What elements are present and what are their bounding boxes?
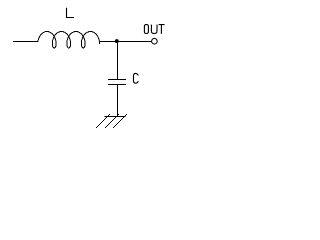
terminal OUT circle	[152, 38, 158, 44]
ground hatch middle	[105, 114, 119, 128]
wire input lead left	[13, 41, 38, 43]
capacitor C bottom plate	[108, 84, 126, 86]
node junction dot	[115, 39, 119, 43]
label OUT	[144, 25, 164, 34]
wire from inductor to node	[99, 41, 151, 43]
capacitor C top plate	[108, 79, 126, 81]
wire capacitor to ground	[117, 85, 119, 117]
ground bar	[105, 116, 126, 118]
label C	[134, 73, 139, 83]
label L	[67, 8, 74, 18]
inductor L coil	[38, 32, 100, 49]
ground hatch left	[96, 114, 110, 128]
wire node to capacitor	[117, 42, 119, 80]
ground hatch right	[113, 114, 127, 128]
